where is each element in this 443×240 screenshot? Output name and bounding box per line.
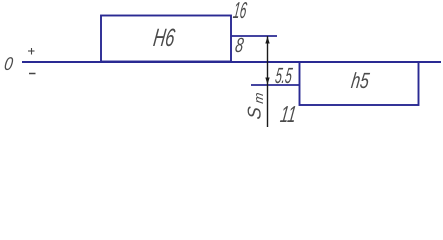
svg-text:11: 11 xyxy=(279,101,298,127)
svg-text:H6: H6 xyxy=(152,24,177,52)
svg-text:16: 16 xyxy=(232,0,249,23)
svg-text:Sm: Sm xyxy=(244,90,266,120)
svg-text:h5: h5 xyxy=(350,68,372,93)
svg-text:8: 8 xyxy=(234,34,246,57)
svg-text:0: 0 xyxy=(3,53,15,74)
